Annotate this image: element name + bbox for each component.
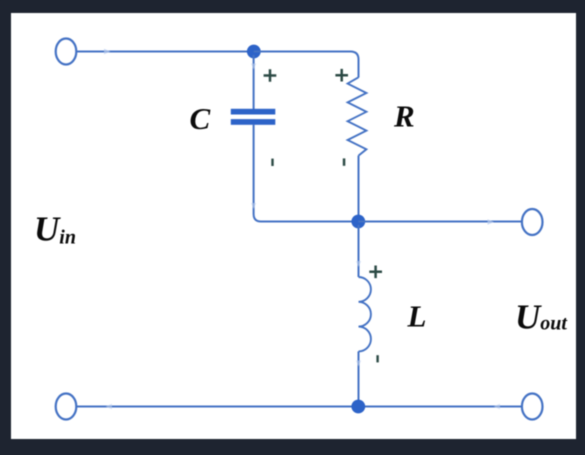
terminal output middle-right [522, 209, 543, 235]
capacitor minus mark [271, 159, 273, 166]
terminal input bottom-left [56, 394, 77, 420]
terminal input top-left [56, 39, 77, 65]
wire: resistor bottom to node B [358, 156, 360, 222]
node B (middle junction) [351, 215, 365, 229]
capacitor C plates [231, 109, 275, 125]
wire: node A to resistor top (rounded corner) [254, 52, 359, 78]
svg-text:L: L [407, 298, 427, 333]
wire: inductor bottom to node C [358, 351, 360, 406]
wire bottom: input terminal to output terminal [77, 406, 523, 408]
inductor plus mark [369, 266, 382, 279]
current arrow on inductor top wire [356, 261, 361, 267]
inductor L coils [359, 277, 371, 351]
svg-text:R: R [393, 98, 415, 133]
current arrow on bottom wire left [106, 404, 113, 409]
capacitor plus mark [264, 69, 277, 82]
current arrow on capacitor branch [251, 64, 256, 70]
svg-text:C: C [190, 101, 211, 136]
current arrow on top wire [104, 49, 111, 54]
inductor minus mark [376, 355, 378, 362]
wire: node B down to inductor top [358, 225, 360, 277]
resistor plus mark [335, 69, 348, 82]
wire top: input terminal to node A [77, 51, 251, 53]
current arrow on inductor bottom wire [356, 361, 361, 367]
wire middle: node B to output terminal [358, 221, 522, 223]
current arrow on middle wire [488, 219, 495, 224]
wire: capacitor bottom plate down and right to node B [254, 125, 355, 222]
node A (top junction) [247, 45, 261, 59]
terminal output bottom-right [522, 394, 543, 420]
current arrow on capacitor lower wire [251, 203, 256, 209]
resistor minus mark [343, 158, 346, 165]
current arrow on bottom wire right [494, 404, 501, 409]
node C (bottom junction) [351, 400, 365, 414]
resistor R zigzag [348, 77, 367, 155]
wire: node A down to capacitor top plate [253, 55, 255, 109]
